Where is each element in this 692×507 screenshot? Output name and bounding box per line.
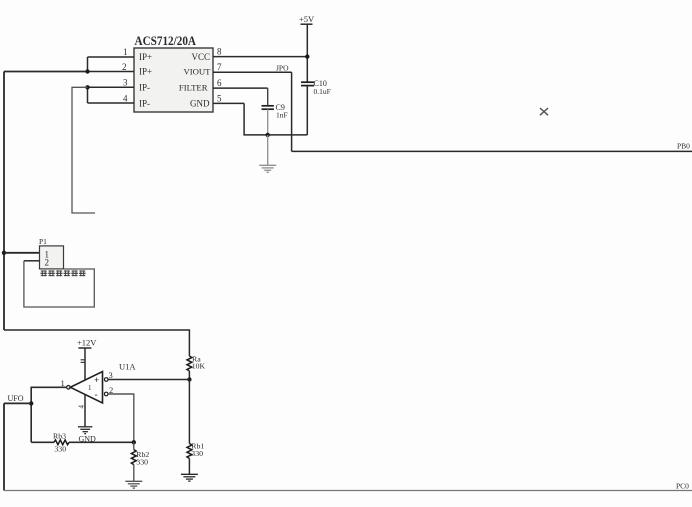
node Rb2 top <box>132 440 136 444</box>
svg-text:IP-: IP- <box>139 83 150 93</box>
node pins 1-2 <box>85 69 89 73</box>
svg-text:10K: 10K <box>192 362 206 371</box>
IC U? ACS712 body <box>134 48 213 112</box>
node Ra pin3 <box>187 377 191 381</box>
svg-text:3: 3 <box>123 78 128 88</box>
wire Rb2 to ground <box>133 465 135 482</box>
wire output net <box>31 387 66 442</box>
svg-text:330: 330 <box>136 458 148 467</box>
ground below C9 <box>259 165 276 172</box>
svg-text:1: 1 <box>123 47 128 57</box>
wire Ra to node <box>188 371 190 380</box>
wire node to Rb2 <box>133 442 135 449</box>
svg-text:8: 8 <box>217 47 222 57</box>
svg-text:5: 5 <box>217 94 222 104</box>
svg-text:330: 330 <box>54 445 66 454</box>
pin 1 stub <box>88 56 135 58</box>
wire pin3 net <box>108 379 189 381</box>
svg-text:+5V: +5V <box>299 14 315 24</box>
wire GND pin5 down <box>244 103 307 134</box>
pin 8 stub VCC <box>213 56 307 58</box>
capacitor C9 <box>262 105 274 107</box>
wire +5V rail <box>306 24 308 82</box>
svg-text:IP+: IP+ <box>139 52 152 62</box>
wire solar panel loop <box>24 261 94 307</box>
pin 1 output circle <box>67 386 71 390</box>
svg-text:UFO: UFO <box>8 394 24 403</box>
wire pin2 net <box>108 394 134 442</box>
svg-text:4: 4 <box>123 94 128 104</box>
pin 5 stub GND <box>213 102 244 104</box>
pin 3 circle <box>104 378 108 382</box>
pin 3 stub <box>88 86 135 88</box>
svg-text:3: 3 <box>109 370 113 380</box>
wire +12V to op-amp <box>84 348 86 380</box>
pin 2 circle <box>104 392 108 396</box>
svg-text:FILTER: FILTER <box>179 83 208 93</box>
wire left rail to Ra <box>4 330 189 356</box>
pin 6 stub FILTER <box>213 87 268 89</box>
svg-text:4: 4 <box>78 405 86 409</box>
svg-text:7: 7 <box>217 62 222 72</box>
svg-text:U1A: U1A <box>119 362 136 372</box>
wire Rb3 right <box>69 441 134 443</box>
resistor Rb1 <box>187 444 192 459</box>
node pins 3-4 <box>85 85 89 89</box>
svg-text:IP-: IP- <box>139 99 150 109</box>
wire bracket pins 1-2 <box>87 57 89 72</box>
svg-text:6: 6 <box>217 78 222 88</box>
node C9 bottom <box>266 133 270 137</box>
power +5V bar <box>301 23 313 25</box>
wire P1 pin2 <box>24 260 40 262</box>
svg-text:Rb3: Rb3 <box>53 432 66 441</box>
wire C9 ground stem <box>267 135 269 165</box>
node UFO <box>29 401 33 405</box>
wire IP+ bus to left rail <box>4 71 88 73</box>
svg-text:PC0: PC0 <box>676 482 689 491</box>
wire Ra node down to Rb1 <box>188 380 190 444</box>
op-amp U1A triangle <box>70 372 102 404</box>
pin 2 stub <box>88 71 135 73</box>
svg-text:ACS712/20A: ACS712/20A <box>135 34 197 48</box>
pin 7 stub VIOUT <box>213 71 292 73</box>
svg-text:VCC: VCC <box>191 52 210 62</box>
svg-text:1nF: 1nF <box>276 111 288 120</box>
svg-text:GND: GND <box>190 99 210 109</box>
svg-text:+: + <box>94 375 99 385</box>
wire PC0 net bottom rail <box>4 490 692 492</box>
ground below Rb1 <box>181 474 198 481</box>
svg-text:JPO: JPO <box>276 64 289 73</box>
label solar panel 太阳能电池板 <box>40 270 85 276</box>
svg-text:VIOUT: VIOUT <box>183 67 211 77</box>
wire VIOUT down <box>291 72 293 151</box>
resistor Rb3 <box>54 440 69 445</box>
node P1 junction <box>2 251 6 255</box>
svg-text:-: - <box>95 390 98 400</box>
wire op-amp pin4 down <box>84 395 86 427</box>
resistor Rb2 <box>131 450 136 465</box>
wire UFO <box>4 402 31 404</box>
connector P1 body <box>40 246 64 269</box>
capacitor C10 <box>301 81 314 83</box>
resistor Ra <box>187 356 192 371</box>
ground below op-amp <box>78 427 92 434</box>
svg-text:2: 2 <box>122 62 127 72</box>
svg-text:IP+: IP+ <box>139 67 152 77</box>
pin 4 stub <box>88 102 135 104</box>
wire FILTER down <box>267 88 269 106</box>
svg-text:0.1uF: 0.1uF <box>314 87 331 96</box>
wire feedback Rb3 left <box>31 441 54 443</box>
wire C10 bottom <box>306 86 308 135</box>
svg-text:+12V: +12V <box>77 338 97 348</box>
svg-text:PB0: PB0 <box>677 142 690 151</box>
wire left rail lower <box>3 403 5 490</box>
wire IP- left <box>72 87 95 213</box>
wire PB0 net <box>292 150 692 152</box>
node VCC +5V <box>305 54 309 58</box>
ground below Rb2 <box>125 481 142 488</box>
power +12V bar <box>78 347 91 349</box>
pin 8 marks of op-amp <box>81 360 85 363</box>
svg-text:1: 1 <box>88 384 92 392</box>
wire left rail upper <box>3 72 5 331</box>
wire P1 pin1 <box>4 252 40 254</box>
svg-text:330: 330 <box>191 449 203 458</box>
svg-text:2: 2 <box>45 258 50 268</box>
wire bracket pins 3-4 <box>87 87 89 103</box>
wire Rb1 to ground <box>188 459 190 475</box>
svg-text:P1: P1 <box>39 237 47 246</box>
no-ERC marker X <box>540 108 548 115</box>
wire C9 bottom <box>267 109 269 135</box>
